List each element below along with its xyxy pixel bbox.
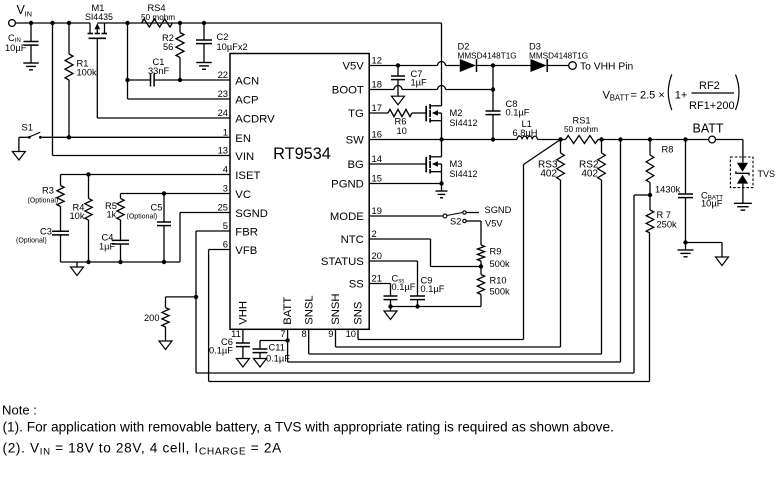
resistor 200 ohm xyxy=(144,297,196,341)
svg-text:RF1+200: RF1+200 xyxy=(689,100,735,112)
ground S1 xyxy=(12,137,25,160)
svg-text:(2). VIN = 18V to 28V, 4 cell,: (2). VIN = 18V to 28V, 4 cell, ICHARGE =… xyxy=(3,440,283,457)
capacitor Css xyxy=(384,274,416,307)
svg-text:SI4435: SI4435 xyxy=(85,12,113,22)
svg-text:R6: R6 xyxy=(395,117,407,127)
capacitor C5 (Optional) xyxy=(127,194,172,263)
wire BATT sense drop xyxy=(620,140,622,363)
wire V5V xyxy=(369,62,460,68)
svg-text:16: 16 xyxy=(372,129,382,140)
wire VFB routing xyxy=(209,233,650,382)
svg-text:10k: 10k xyxy=(70,211,85,221)
wire TVS to ground xyxy=(742,184,744,204)
wire ACN to IC xyxy=(180,79,230,81)
wire analog ground bus xyxy=(61,260,181,264)
svg-text:= 2.5 ×: = 2.5 × xyxy=(631,89,665,101)
svg-text:18: 18 xyxy=(372,79,382,90)
resistor R1 xyxy=(65,23,97,137)
U1 bottom pin names xyxy=(238,293,365,324)
svg-text:VFB: VFB xyxy=(235,245,257,257)
svg-text:(Optional): (Optional) xyxy=(127,214,158,221)
svg-text:M2: M2 xyxy=(450,108,463,118)
svg-text:1: 1 xyxy=(223,127,228,138)
svg-text:10µFx2: 10µFx2 xyxy=(217,42,248,52)
transistor M2 SI4412 xyxy=(426,104,477,128)
svg-text:ISET: ISET xyxy=(235,170,260,182)
svg-text:1430k: 1430k xyxy=(655,185,681,195)
svg-text:21: 21 xyxy=(372,273,382,284)
svg-text:RS4: RS4 xyxy=(148,3,166,13)
wire BOOT xyxy=(369,86,495,92)
svg-text:V5V: V5V xyxy=(485,219,503,229)
svg-text:33nF: 33nF xyxy=(148,66,170,76)
svg-text:24: 24 xyxy=(218,107,228,118)
U1 left pin names xyxy=(235,76,275,258)
svg-text:Note :: Note : xyxy=(2,403,37,418)
svg-text:25: 25 xyxy=(218,202,228,213)
ground TVS xyxy=(734,203,752,210)
svg-text:TG: TG xyxy=(348,108,364,120)
svg-text:56: 56 xyxy=(163,42,173,52)
wire M3 drain to SW xyxy=(441,140,443,157)
svg-text:500k: 500k xyxy=(490,259,511,269)
svg-text:200: 200 xyxy=(144,313,160,323)
svg-text:7: 7 xyxy=(280,328,285,339)
ground PGND xyxy=(436,184,448,198)
svg-text:(Optional): (Optional) xyxy=(28,198,59,205)
svg-text:(1). For application with remo: (1). For application with removable batt… xyxy=(3,419,614,434)
svg-text:100k: 100k xyxy=(77,68,98,78)
svg-text:MMSD4148T1G: MMSD4148T1G xyxy=(529,52,588,61)
node S2 V5V throw xyxy=(466,219,503,229)
wire SGND drop xyxy=(180,213,230,263)
svg-text:SNSH: SNSH xyxy=(330,293,342,324)
switch S2 xyxy=(369,211,466,227)
ground Css xyxy=(384,307,397,320)
capacitor C4 xyxy=(99,220,129,262)
svg-text:V5V: V5V xyxy=(342,61,364,73)
wire input rail right of M1 xyxy=(97,22,441,24)
capacitor CIN xyxy=(5,23,39,70)
ground analog xyxy=(71,262,84,276)
svg-text:VIN: VIN xyxy=(235,151,254,163)
diode D2 MMSD4148T1G xyxy=(458,42,517,73)
resistor R6 xyxy=(369,109,425,136)
svg-text:1+: 1+ xyxy=(675,89,688,101)
svg-text:C5: C5 xyxy=(151,203,163,213)
note line 1 xyxy=(3,419,614,434)
svg-text:M3: M3 xyxy=(450,159,463,169)
svg-text:50 mohm: 50 mohm xyxy=(141,13,175,22)
capacitor C6 xyxy=(209,329,250,358)
svg-text:SS: SS xyxy=(349,279,365,291)
svg-text:2: 2 xyxy=(372,228,377,239)
wire L1 to RS1 xyxy=(537,137,565,141)
svg-text:BATT: BATT xyxy=(282,297,294,325)
wire STATUS to C9 xyxy=(369,261,417,296)
capacitor C3 (Optional) xyxy=(16,227,69,263)
diode TVS xyxy=(730,157,775,188)
svg-text:S1: S1 xyxy=(22,123,33,133)
resistor RS4 xyxy=(141,3,175,27)
svg-text:C3: C3 xyxy=(40,227,52,237)
diode D3 MMSD4148T1G xyxy=(529,42,588,73)
wire VC xyxy=(121,191,231,195)
svg-text:S2: S2 xyxy=(450,217,461,227)
wire RS1 to BATT terminal xyxy=(598,137,709,141)
resistor R2 xyxy=(162,23,184,80)
wire EN to IC xyxy=(42,135,230,139)
svg-text:4: 4 xyxy=(223,164,228,175)
svg-text:D2: D2 xyxy=(458,42,470,52)
wire FBR routing xyxy=(194,195,650,373)
svg-text:0.1µF: 0.1µF xyxy=(209,346,233,356)
capacitor C8 xyxy=(486,66,530,140)
svg-text:17: 17 xyxy=(372,102,382,113)
svg-text:VC: VC xyxy=(235,189,251,201)
wire M3 source to PGND xyxy=(439,172,443,186)
note line 2 xyxy=(3,440,283,457)
svg-text:SI4412: SI4412 xyxy=(450,118,478,128)
svg-text:SNSL: SNSL xyxy=(303,295,315,325)
svg-text:1µF: 1µF xyxy=(99,242,116,252)
wire SNSH routing xyxy=(336,329,561,347)
wire ISET xyxy=(61,172,231,176)
svg-text:C11: C11 xyxy=(269,343,285,353)
svg-text:SGND: SGND xyxy=(235,208,268,220)
svg-text:RF2: RF2 xyxy=(699,80,720,92)
wire D2 cathode to D3 anode xyxy=(477,63,531,67)
svg-text:RS1: RS1 xyxy=(573,116,591,126)
transistor M1 SI4435 xyxy=(85,3,113,38)
svg-text:R8: R8 xyxy=(662,145,674,155)
wire ACP branch from rail xyxy=(128,23,231,99)
switch S1 xyxy=(19,123,42,139)
svg-text:6.8µH: 6.8µH xyxy=(513,128,538,138)
node S2 SGND throw xyxy=(466,205,511,215)
capacitor C1 xyxy=(128,57,181,87)
svg-text:SI4412: SI4412 xyxy=(450,169,478,179)
svg-text:ACDRV: ACDRV xyxy=(235,114,275,126)
svg-text:SNS: SNS xyxy=(353,301,365,325)
svg-text:9: 9 xyxy=(328,328,333,339)
resistor RS2 xyxy=(579,140,605,355)
svg-text:NTC: NTC xyxy=(341,234,364,246)
capacitor C2 xyxy=(196,23,248,69)
svg-text:402: 402 xyxy=(540,169,557,180)
svg-text:(Optional): (Optional) xyxy=(16,238,47,245)
svg-text:19: 19 xyxy=(372,205,382,216)
node C1 taps xyxy=(125,78,182,82)
svg-text:C2: C2 xyxy=(217,32,229,42)
equation VBATT xyxy=(603,75,740,113)
svg-text:20: 20 xyxy=(372,250,382,261)
svg-text:14: 14 xyxy=(372,153,382,164)
svg-text:1k: 1k xyxy=(107,210,117,220)
resistor RS3 xyxy=(538,140,564,348)
svg-text:ACN: ACN xyxy=(235,76,259,88)
wire SW pin xyxy=(369,137,443,141)
svg-text:50 mohm: 50 mohm xyxy=(564,125,598,134)
terminal BATT xyxy=(693,122,724,143)
svg-text:8: 8 xyxy=(301,328,306,339)
svg-text:PGND: PGND xyxy=(331,179,364,191)
svg-text:STATUS: STATUS xyxy=(321,256,364,268)
svg-text:EN: EN xyxy=(235,133,251,145)
IC U1 RT9534 charger controller body xyxy=(230,54,369,330)
svg-text:R10: R10 xyxy=(490,276,507,286)
capacitor C11 xyxy=(253,338,291,363)
U1 right pin names xyxy=(321,61,364,291)
capacitor C7 xyxy=(391,66,427,97)
resistor R7 xyxy=(646,195,677,233)
svg-text:10: 10 xyxy=(397,126,407,136)
wire BATT pin routing xyxy=(288,329,621,362)
capacitor C9 xyxy=(410,276,445,307)
svg-text:BATT: BATT xyxy=(693,122,724,136)
wire SW node to L1 xyxy=(442,137,518,141)
svg-text:TVS: TVS xyxy=(758,169,776,179)
U1 pin numbers xyxy=(218,55,382,339)
svg-text:SGND: SGND xyxy=(485,205,512,215)
capacitor CBATT xyxy=(678,140,723,245)
svg-text:5: 5 xyxy=(223,220,228,231)
svg-text:1µF: 1µF xyxy=(411,78,428,88)
resistor RS1 xyxy=(564,116,598,144)
wire NTC xyxy=(369,239,481,267)
svg-text:R 7: R 7 xyxy=(657,210,671,220)
ground C11 xyxy=(254,359,267,368)
svg-text:VHH: VHH xyxy=(238,301,250,325)
ground CBATT left xyxy=(678,243,694,257)
svg-text:D3: D3 xyxy=(529,42,541,52)
resistor R5 xyxy=(105,194,124,221)
note heading xyxy=(2,403,37,418)
wire M2 source to SW xyxy=(441,121,443,140)
resistor R8 xyxy=(646,140,680,198)
wire input rail left xyxy=(15,22,90,24)
svg-text:To VHH Pin: To VHH Pin xyxy=(580,62,633,73)
svg-text:0.1µF: 0.1µF xyxy=(506,108,530,118)
wire M2 drain to rail xyxy=(441,23,443,106)
wire BG xyxy=(369,163,425,165)
wire SS to Css xyxy=(369,284,390,297)
wire PGND xyxy=(369,183,441,185)
svg-text:SW: SW xyxy=(346,135,365,147)
svg-text:0.1µF: 0.1µF xyxy=(266,354,290,364)
svg-text:23: 23 xyxy=(218,88,228,99)
wire VIN pin to rail xyxy=(53,23,231,156)
svg-text:10: 10 xyxy=(346,328,356,339)
svg-text:0.1µF: 0.1µF xyxy=(392,282,416,292)
resistor R3 (Optional) xyxy=(28,175,65,232)
svg-text:6: 6 xyxy=(223,239,228,250)
svg-text:ACP: ACP xyxy=(235,95,258,107)
svg-text:RT9534: RT9534 xyxy=(273,145,331,163)
transistor M3 SI4412 xyxy=(426,155,477,179)
terminal To VHH Pin xyxy=(547,62,633,73)
svg-text:IN: IN xyxy=(25,10,33,19)
resistor R9 xyxy=(477,221,510,269)
wire SNS tap diagonal xyxy=(524,140,561,340)
svg-text:250k: 250k xyxy=(657,220,678,230)
svg-text:MODE: MODE xyxy=(330,211,364,223)
svg-text:BOOT: BOOT xyxy=(332,85,364,97)
svg-text:BATT: BATT xyxy=(610,94,630,103)
svg-text:R9: R9 xyxy=(490,247,502,257)
svg-text:500k: 500k xyxy=(490,287,511,297)
wire BATT terminal to TVS xyxy=(716,140,743,163)
wire SNSL routing xyxy=(309,329,602,354)
svg-text:0.1µF: 0.1µF xyxy=(421,284,445,294)
svg-text:13: 13 xyxy=(218,145,228,156)
resistor R10 xyxy=(477,267,510,307)
ground C7 xyxy=(392,96,405,105)
inductor L1 xyxy=(513,119,538,140)
svg-text:22: 22 xyxy=(218,69,228,80)
terminal VIN input xyxy=(9,3,32,26)
resistor R4 xyxy=(70,175,93,263)
node rail junctions xyxy=(29,21,206,25)
svg-text:15: 15 xyxy=(372,173,382,184)
svg-text:MMSD4148T1G: MMSD4148T1G xyxy=(458,52,517,61)
svg-text:BG: BG xyxy=(347,159,363,171)
svg-text:12: 12 xyxy=(372,55,382,66)
wire soft-start ground bus xyxy=(388,304,481,308)
wire SNS routing xyxy=(358,329,524,339)
svg-text:10µF: 10µF xyxy=(701,199,723,209)
svg-text:3: 3 xyxy=(223,183,228,194)
svg-text:R3: R3 xyxy=(42,186,54,196)
svg-text:FBR: FBR xyxy=(235,227,258,239)
svg-text:10µF: 10µF xyxy=(5,43,27,53)
ground C6 xyxy=(236,359,249,368)
wire M1 gate to ACDRV xyxy=(97,38,230,118)
ground 200 ohm resistor xyxy=(159,341,172,350)
svg-text:402: 402 xyxy=(581,169,598,180)
ground CBATT right xyxy=(686,243,729,266)
